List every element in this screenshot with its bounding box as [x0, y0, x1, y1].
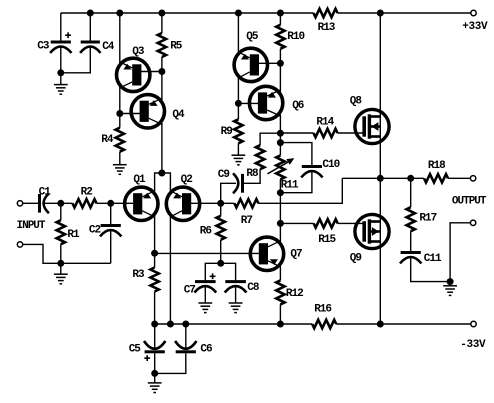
mosfet Q8 [355, 109, 389, 143]
junction Q5 base / Q6 emitter [277, 60, 284, 67]
wire R17 to C11 [410, 231, 412, 251]
junction bias node C [277, 189, 284, 196]
svg-text:R11: R11 [281, 180, 299, 192]
svg-text:C3: C3 [37, 40, 50, 52]
svg-text:R17: R17 [419, 212, 436, 224]
wire C6 top stem [185, 324, 187, 348]
svg-text:R4: R4 [101, 134, 114, 146]
wire +33V rail right segment [338, 12, 471, 14]
svg-text:Q3: Q3 [132, 46, 145, 58]
wire rail to Q5 emitter [237, 13, 239, 54]
trimmer R11 arrowhead [286, 158, 294, 165]
junction rail R5 [158, 10, 165, 17]
svg-text:R8: R8 [246, 168, 259, 180]
wire C5 bottom stem [154, 353, 156, 383]
capacitor C2 [101, 224, 121, 227]
wire ground stem top-left [60, 73, 62, 85]
svg-text:R13: R13 [318, 22, 336, 34]
resistor R10 [276, 25, 284, 49]
capacitor C6 [176, 350, 196, 353]
svg-text:R12: R12 [286, 288, 303, 300]
svg-text:Q7: Q7 [290, 249, 302, 261]
resistor R13 [314, 9, 338, 17]
junction Q6 base node [235, 100, 242, 107]
svg-text:R18: R18 [428, 160, 446, 172]
wire node to R9 [237, 103, 239, 119]
wire C2 bottom stem [110, 231, 112, 264]
wire rail to R10 [279, 13, 281, 25]
svg-text:Q8: Q8 [350, 95, 363, 107]
capacitor C10 [302, 165, 322, 168]
ground under C5/C6 [148, 382, 162, 384]
wire node to Q4 emitter [161, 72, 163, 101]
svg-text:C11: C11 [424, 253, 442, 265]
wire node to R15 [280, 222, 313, 224]
svg-text:Q4: Q4 [172, 109, 185, 121]
capacitor C3 [51, 41, 71, 44]
svg-text:Q5: Q5 [246, 31, 259, 43]
terminal input hot [17, 201, 22, 206]
wire Q2 collector to -rail [169, 216, 171, 325]
wire C5 top stem [154, 324, 156, 348]
ground under R9 [232, 154, 246, 156]
wire Q4 collector to tail node [161, 123, 163, 173]
junction Q7 collector node [277, 220, 284, 227]
wire output ground lead [450, 223, 470, 282]
wire output node run [342, 177, 424, 179]
wire C3 to ground node [60, 47, 62, 73]
wire Q6 base to node [238, 102, 261, 104]
wire C4 bottom to ground node [61, 47, 91, 73]
junction -rail Q2 collector [167, 321, 174, 328]
resistor R18 [424, 174, 448, 182]
ground under C7 [198, 302, 212, 304]
junction R2/C2/Q1 base [107, 200, 114, 207]
svg-text:C9: C9 [218, 169, 230, 181]
wire R9 to ground [237, 143, 239, 155]
capacitor C7 [195, 280, 216, 283]
wire R2 to Q1 base [97, 202, 134, 204]
junction input ground node [57, 260, 64, 267]
wire R12 to -rail [279, 304, 281, 324]
wire tail yoke [155, 173, 171, 192]
svg-text:C5: C5 [129, 343, 142, 355]
capacitor C1 [38, 194, 41, 213]
wire R6 to C7/C8 node [220, 240, 222, 263]
junction output node [377, 175, 384, 182]
transistor Q5 [234, 48, 267, 81]
capacitor C5 [145, 350, 165, 353]
wire input to C1 [23, 202, 38, 204]
wire node to R17 [410, 178, 412, 207]
resistor R15 [314, 219, 338, 227]
terminal output ground [470, 220, 475, 225]
wire ground stem output [449, 282, 451, 286]
svg-text:C6: C6 [200, 343, 212, 355]
wire Q3 collector down [119, 87, 121, 114]
plus sign C5 [144, 357, 150, 359]
svg-text:C2: C2 [89, 225, 101, 237]
junction rail R10 [277, 10, 284, 17]
resistor R7 [234, 199, 258, 207]
wire node to Q7 collector [279, 223, 281, 242]
wire Q3 base to R5 node [141, 71, 162, 73]
trimmer R11 arrow shaft [268, 161, 291, 174]
wire C11 to ground node [411, 258, 450, 282]
wire R7 to output sense [258, 178, 342, 203]
svg-text:R9: R9 [221, 126, 233, 138]
svg-text:INPUT: INPUT [17, 220, 46, 232]
wire Q5 base to R10 node [258, 62, 280, 64]
junction C7/C8 node [217, 260, 224, 267]
transistor Q1 [125, 187, 158, 220]
wire R4 to ground [119, 152, 121, 165]
wire C9 branch left [221, 183, 236, 203]
terminal input ground [17, 242, 22, 247]
svg-text:R6: R6 [200, 226, 212, 238]
junction output ground node [447, 278, 454, 285]
svg-text:Q2: Q2 [181, 174, 193, 186]
transistor Q2 [166, 187, 199, 220]
wire node to Q6 emitter [279, 63, 281, 91]
wire VAS base run [155, 252, 260, 254]
junction rail C4 [87, 10, 94, 17]
transistor Q3 [117, 58, 150, 91]
svg-text:Q1: Q1 [133, 174, 146, 186]
wire bias node to R14 [280, 132, 313, 134]
junction Q3 base / Q4 emitter [158, 68, 165, 75]
wire C8 to ground [235, 287, 237, 303]
resistor R3 [150, 268, 158, 292]
capacitor C8 [225, 280, 246, 283]
junction C1/R1/R2 [57, 200, 64, 207]
wire -33V rail right segment [336, 323, 471, 325]
svg-text:R2: R2 [81, 187, 93, 199]
resistor R14 [314, 129, 338, 137]
wire Q2 base to feedback node [191, 202, 235, 204]
resistor R8 [256, 145, 264, 169]
wire node A to node B [279, 133, 281, 142]
resistor R1 [57, 220, 65, 244]
wire Q4 base to node [120, 113, 144, 115]
ground under C8 [229, 302, 243, 304]
ground under R4 [113, 164, 127, 166]
junction rail Q3 [116, 10, 123, 17]
resistor R9 [234, 119, 242, 143]
terminal output hot [470, 176, 475, 181]
wire C9 to R8 [244, 169, 260, 183]
wire Q7 emitter to R12 [279, 266, 281, 281]
wire rail to Q3 emitter [119, 13, 121, 65]
junction -rail R3/C5 [151, 321, 158, 328]
junction output R17 node [407, 175, 414, 182]
transistor Q4 [131, 95, 164, 128]
svg-text:R10: R10 [287, 31, 304, 43]
junction Q1 collector node [151, 250, 158, 257]
wire main vertical drain/source line [379, 13, 381, 324]
wire input ground lead [23, 244, 111, 263]
junction C5/C6 ground node [151, 370, 158, 377]
resistor R2 [73, 199, 97, 207]
transistor Q6 [249, 86, 282, 119]
wire R11 to node C [279, 179, 281, 192]
transistor Q7 [250, 237, 283, 270]
ground under C3/C4 [54, 84, 68, 86]
wire C2 top stem [110, 203, 112, 224]
resistor R1 stem [60, 203, 62, 220]
wire R18 to output terminal [448, 177, 470, 179]
wire ground stem input [60, 263, 62, 274]
resistor R4 [116, 128, 124, 152]
junction rail Q5 [235, 10, 242, 17]
mosfet Q9 [355, 214, 389, 248]
wire node B to R11 [279, 143, 281, 156]
junction bias node B [277, 139, 284, 146]
junction -rail Q9 source [377, 321, 384, 328]
ground output [443, 285, 457, 287]
junction Q4 base node [116, 110, 123, 117]
svg-text:C7: C7 [184, 284, 196, 296]
wire R10 to Q5 base node [279, 49, 281, 64]
wire R15 to Q9 gate [338, 222, 366, 224]
wire node C to Q7 collector node [279, 193, 281, 224]
wire R1 to input ground node [60, 244, 62, 263]
svg-text:C1: C1 [39, 187, 52, 199]
svg-text:R16: R16 [314, 304, 331, 316]
svg-text:C4: C4 [102, 41, 115, 53]
resistor R17 [407, 207, 415, 231]
svg-text:Q9: Q9 [350, 253, 362, 265]
wire +33V rail left segment [61, 12, 314, 14]
wire C10 bottom branch [280, 172, 312, 193]
plus sign C7 [210, 275, 216, 277]
svg-text:R14: R14 [316, 116, 334, 128]
wire Q1 collector down [154, 216, 156, 254]
junction diff pair tail [158, 170, 165, 177]
junction Q2 base node [217, 200, 224, 207]
capacitor C11 [401, 251, 421, 254]
junction -rail R12 [277, 321, 284, 328]
resistor R6 [217, 216, 225, 240]
capacitor C4 [81, 41, 100, 44]
wire Q6 collector down [279, 115, 281, 134]
svg-text:R1: R1 [67, 229, 80, 241]
resistor R5 [158, 33, 166, 57]
svg-text:R5: R5 [170, 40, 183, 52]
resistor R12 [276, 280, 284, 304]
resistor R16 [312, 320, 336, 328]
svg-text:OUTPUT: OUTPUT [452, 196, 487, 208]
wire C6 bottom stem [155, 353, 186, 373]
svg-text:R7: R7 [241, 215, 253, 227]
wire C1 to R2 node [44, 202, 73, 204]
svg-text:-33V: -33V [460, 339, 486, 351]
capacitor C9 [241, 174, 244, 193]
wire rail to R5 [161, 13, 163, 33]
wire C10 top branch [280, 143, 312, 166]
ground input [54, 273, 68, 275]
junction bias node A [277, 130, 284, 137]
wire rail to C4 [89, 13, 91, 41]
svg-text:+33V: +33V [462, 21, 488, 33]
svg-text:Q6: Q6 [292, 100, 304, 112]
terminal -33V [471, 321, 476, 326]
wire node to R3 [154, 253, 156, 267]
junction C3/C4 ground node [57, 69, 64, 76]
svg-text:C8: C8 [247, 282, 260, 294]
svg-text:C10: C10 [322, 159, 339, 171]
terminal +33V [471, 10, 476, 15]
svg-text:R15: R15 [318, 234, 336, 246]
junction rail Q8 drain [377, 10, 384, 17]
plus sign C3 [65, 34, 71, 36]
wire rail to C3 [60, 13, 62, 41]
wire R14 to Q8 gate [338, 132, 366, 134]
resistor R6 stem [220, 203, 222, 216]
wire C7/C8 yoke [205, 263, 235, 280]
junction -rail C6 [182, 321, 189, 328]
trimmer R11 [276, 155, 284, 179]
wire -33V rail [155, 323, 313, 325]
wire R3 to -rail [154, 292, 156, 325]
wire R5 to Q3 base node [161, 57, 163, 72]
svg-text:R3: R3 [132, 269, 145, 281]
wire R8 top to bias node [260, 133, 280, 145]
wire Q5 collector down [237, 77, 239, 104]
wire C7 to ground [204, 287, 206, 303]
wire node to R4 [119, 114, 121, 128]
